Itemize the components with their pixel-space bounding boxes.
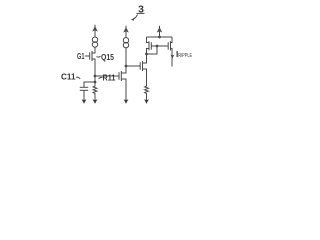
current source I2 [123, 38, 128, 48]
resistor under Q17 [145, 84, 149, 100]
transistor Q17 [140, 54, 146, 84]
mirror supply rail wire [147, 36, 173, 38]
supply arrow (top of current source 2) [123, 26, 129, 38]
ground arrow under C11 [82, 99, 87, 103]
label IRIPPLE [176, 50, 192, 59]
ground arrow under R11 [93, 99, 98, 103]
svg-text:C11: C11 [61, 73, 76, 82]
node G1 label [77, 52, 85, 61]
capacitor C11 [80, 87, 88, 100]
wire junction down to C11/R11 node [94, 76, 96, 82]
diode connection wire [147, 46, 158, 54]
ground arrow under Q17 resistor [144, 99, 149, 103]
junction dot C11/R11 node [94, 81, 97, 84]
wire G1 to gate of Q15 [85, 55, 90, 57]
current direction arrow IRIPPLE [171, 55, 175, 59]
junction dot P1 drain [145, 53, 148, 56]
current source I1 [92, 37, 97, 47]
svg-text:Q15: Q15 [101, 53, 114, 62]
ground arrow under Q16 [124, 99, 129, 103]
wire I1 to Q15 drain [94, 47, 96, 53]
label C11 with leader [61, 73, 80, 82]
leader arrow from numeral 3 [131, 15, 138, 21]
wire junction to gate of Q16 [95, 75, 119, 77]
wire node to C11 [84, 82, 95, 87]
figure numeral 3 [138, 4, 144, 15]
supply arrow (mirror rail) [157, 26, 163, 37]
transistor P1 (left mirror PMOS, diode-connected) [147, 37, 152, 54]
svg-text:RIPPLE: RIPPLE [178, 53, 192, 59]
transistor Q16 [119, 66, 126, 100]
junction dot (I2 / Q16 drain / Q17 gate) [125, 65, 128, 68]
label Q15 with leader [97, 53, 115, 62]
junction dot gate wire [156, 45, 159, 48]
wire node to gate of Q17 [126, 65, 140, 67]
wire P1 drain down to Q17 drain [146, 54, 148, 63]
underline of numeral 3 [137, 12, 145, 14]
supply arrow (top of current source 1) [92, 25, 98, 37]
label R11 with leader [99, 74, 117, 83]
resistor R11 [93, 82, 97, 100]
svg-text:R11: R11 [103, 74, 117, 83]
wire I2 down to node [125, 48, 127, 66]
mirror gate wire [151, 45, 168, 47]
transistor Q15 [90, 48, 95, 76]
junction dot supply/rail [158, 36, 161, 39]
transistor P2 (right mirror PMOS) [168, 37, 172, 67]
svg-text:G1: G1 [77, 52, 85, 61]
node junction dot (Q15 source / gate wire) [94, 75, 97, 78]
